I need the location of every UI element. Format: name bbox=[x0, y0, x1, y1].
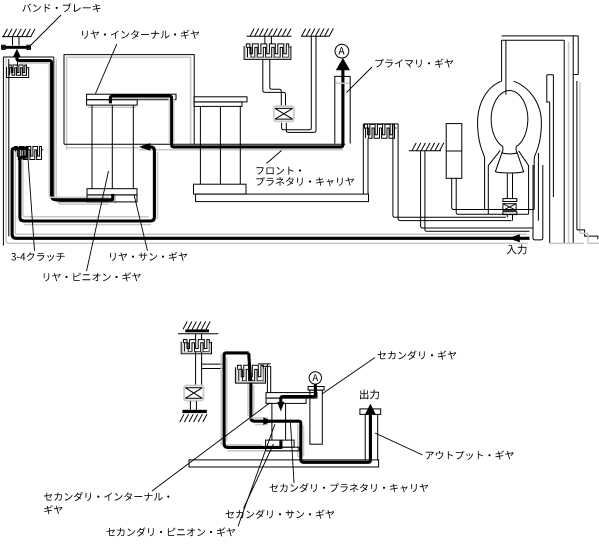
label A (primary) bbox=[335, 44, 349, 58]
final drive ring gear (outer case) bbox=[478, 81, 502, 209]
secondary clutch pack bbox=[238, 365, 264, 377]
label band brake bbox=[22, 3, 100, 12]
label 3-4 clutch bbox=[11, 252, 64, 261]
wire: secondary gear to internal gear bbox=[281, 384, 316, 402]
rear clutch pack bbox=[265, 36, 272, 44]
band brake bbox=[13, 37, 20, 46]
one-way clutch (differential) bbox=[503, 199, 517, 202]
label rear pinion gear bbox=[44, 272, 141, 281]
input shaft coupling bbox=[533, 165, 543, 240]
3-4 clutch pack bbox=[15, 147, 42, 157]
front case support bbox=[421, 151, 533, 228]
band brake drum (left drum outline) bbox=[2, 57, 4, 246]
secondary brake stem bbox=[196, 352, 202, 385]
label primary gear bbox=[375, 59, 453, 68]
one-way clutch (secondary) bbox=[184, 386, 203, 401]
secondary pinion pillars bbox=[272, 403, 286, 439]
ground anchor bar (secondary) bbox=[182, 410, 206, 413]
wire: rear internal gear to primary gear bbox=[110, 69, 343, 147]
secondary owc lower stem bbox=[190, 401, 196, 410]
label front planetary carrier bbox=[256, 167, 301, 175]
ground hatch (secondary band anchor) bbox=[183, 322, 210, 330]
rear sun gear plate bbox=[87, 189, 137, 195]
front planetary pinion pillars bbox=[200, 106, 240, 184]
output arrowhead bbox=[365, 404, 376, 415]
secondary clutch mount bbox=[258, 364, 271, 367]
label secondary pinion gear bbox=[107, 527, 236, 536]
differential side gear bbox=[495, 153, 523, 173]
secondary brake pack bbox=[183, 340, 209, 349]
label secondary planetary carrier bbox=[270, 483, 429, 492]
wire: input rail (bottom long rail) bbox=[12, 148, 529, 238]
internal gear arrowhead bbox=[277, 402, 284, 412]
label secondary internal gear bbox=[44, 492, 169, 501]
housing contour top bbox=[64, 55, 194, 145]
rear internal gear plate bbox=[87, 94, 176, 100]
wire: front carrier rail echo lines bbox=[64, 143, 345, 145]
secondary internal gear plate bbox=[266, 393, 317, 399]
label secondary gear bbox=[378, 351, 457, 360]
one-way clutch (rear) bbox=[274, 106, 294, 121]
wire: band brake power path bbox=[13, 49, 21, 57]
housing right top bars bbox=[502, 36, 579, 40]
front one-way clutch stem bbox=[452, 178, 535, 209]
secondary band stems bbox=[196, 334, 202, 340]
axle housing pair bbox=[547, 75, 554, 243]
primary gear shaft box bbox=[335, 76, 350, 143]
input arrowhead bbox=[508, 234, 520, 242]
secondary carrier plate bbox=[266, 440, 295, 447]
wire: through secondary clutch to sun gear bbox=[249, 353, 371, 462]
front band spline bbox=[363, 123, 398, 125]
front one-way clutch box bbox=[446, 124, 462, 179]
ground hatch (front case) bbox=[412, 143, 444, 151]
front carrier lower plate bbox=[194, 184, 247, 194]
label rear internal gear bbox=[82, 30, 199, 39]
housing right verticals bbox=[563, 40, 565, 243]
label output bbox=[360, 390, 379, 400]
differential pinion stem bbox=[507, 174, 512, 199]
wire: 3-4 clutch to rear planetary carrier bbox=[20, 147, 155, 221]
input label bbox=[507, 245, 527, 255]
wire: secondary drum bbox=[224, 353, 281, 448]
label secondary sun gear bbox=[226, 510, 335, 519]
rear planetary pinion pillars bbox=[92, 105, 133, 189]
one-way clutch lower stem to case bbox=[282, 36, 312, 130]
front internal gear plate bbox=[194, 97, 247, 102]
front band channel bbox=[362, 124, 364, 194]
base plate bbox=[189, 460, 379, 467]
label output gear bbox=[426, 451, 514, 460]
secondary gear hub box bbox=[308, 387, 324, 391]
final drive inner gear bbox=[491, 91, 528, 147]
output gear shaft bbox=[360, 409, 381, 415]
ground hatch (band brake anchor) bbox=[3, 29, 35, 37]
rear clutch hub stem bbox=[263, 60, 286, 106]
housing right steps bbox=[577, 230, 598, 239]
final drive input stem bbox=[502, 40, 506, 94]
label rear sun gear bbox=[110, 252, 187, 261]
label A (secondary) bbox=[309, 372, 321, 384]
ground hatch (rear clutch anchor) bbox=[250, 29, 291, 37]
sun gear arrowhead bbox=[263, 418, 273, 425]
ground hatch (one-way clutch anchor) bbox=[302, 29, 334, 37]
band drum spline bbox=[17, 62, 19, 65]
